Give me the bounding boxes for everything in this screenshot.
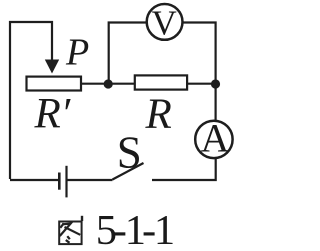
- svg-text:S: S: [117, 127, 142, 177]
- svg-text:R: R: [145, 91, 172, 138]
- svg-text:V: V: [152, 3, 177, 42]
- svg-text:1: 1: [154, 207, 175, 251]
- svg-text:P: P: [65, 32, 89, 74]
- svg-text:A: A: [201, 116, 230, 161]
- svg-text:R′: R′: [34, 91, 71, 138]
